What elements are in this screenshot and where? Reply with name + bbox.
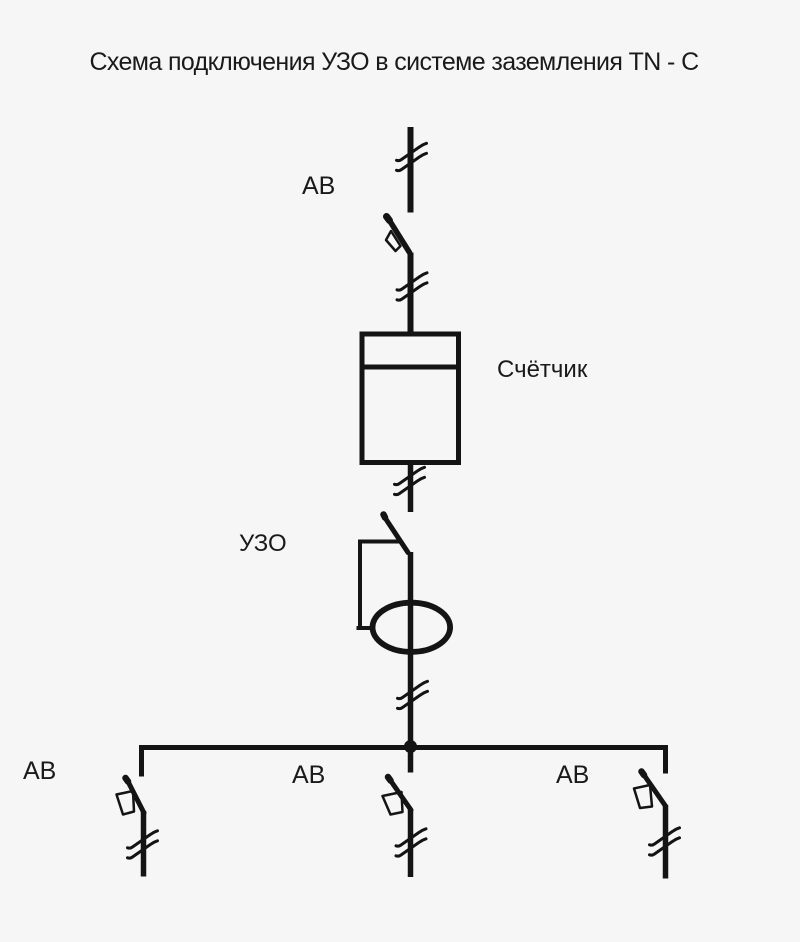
label АВ (right branch) (556, 761, 589, 789)
label АВ (left branch) (23, 757, 56, 785)
svg-text:АВ: АВ (556, 761, 589, 789)
circuit breaker QF1 (main АВ): blade with hook and X-square (386, 217, 410, 253)
hatch: two-slash mark below meter (395, 467, 425, 494)
wire: middle branch stub from junction (408, 747, 414, 773)
hatch: two-slash mark between breaker and meter (397, 273, 427, 300)
hatch: two-slash conductor mark on incoming wire (397, 143, 427, 170)
hatch: two-slash mark on right branch (650, 828, 680, 855)
wire: right branch stub from bus (663, 745, 668, 774)
wire: right branch outgoing (663, 805, 669, 879)
RCD sensing loop bracket (357, 540, 401, 629)
svg-text:АВ: АВ (302, 172, 335, 200)
title: Схема подключения УЗО в системе заземления TN - C (89, 48, 699, 76)
label АВ (middle branch) (292, 761, 325, 789)
RCD switch blade (384, 515, 409, 553)
wire: left branch outgoing (141, 811, 147, 877)
svg-text:Схема подключения УЗО в систем: Схема подключения УЗО в системе заземлен… (89, 48, 699, 76)
hatch: two-slash mark on middle branch (396, 829, 426, 856)
wire: left branch stub from bus (139, 745, 144, 777)
label Счётчик (497, 356, 588, 383)
wire: breaker to meter (408, 253, 414, 335)
circuit breaker QF2 (left АВ) (117, 778, 145, 815)
wire: incoming supply top segment (408, 127, 414, 213)
wire: RCD switch through toroid down to bus (408, 552, 414, 747)
RCD toroid (ellipse) (373, 603, 451, 652)
svg-text:АВ: АВ (292, 761, 325, 789)
wire: meter to RCD switch (408, 462, 414, 512)
wire: middle branch outgoing (408, 809, 414, 877)
svg-text:Счётчик: Счётчик (497, 356, 588, 383)
circuit breaker QF3 (middle АВ) (383, 777, 412, 815)
label АВ (main breaker) (302, 172, 335, 200)
hatch: two-slash mark on left branch (128, 831, 158, 858)
svg-text:АВ: АВ (23, 757, 56, 785)
label УЗО (239, 530, 287, 557)
svg-text:УЗО: УЗО (239, 530, 287, 557)
hatch: two-slash mark below toroid (398, 681, 428, 708)
meter box (Счётчик) (360, 334, 462, 463)
bus: horizontal distribution busbar (139, 745, 668, 750)
junction node on bus (404, 740, 417, 753)
circuit breaker QF4 (right АВ) (634, 772, 666, 809)
